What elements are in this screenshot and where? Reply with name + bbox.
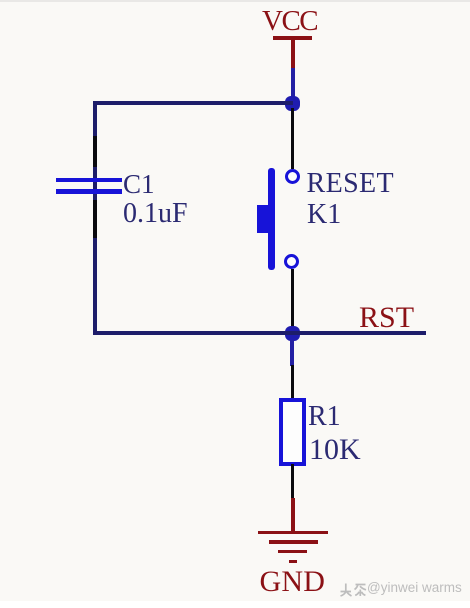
ground bar 2	[269, 540, 318, 543]
wire VCC to node A	[291, 68, 295, 104]
resistor value 10K	[309, 435, 361, 465]
top edge faint line	[0, 0, 470, 2]
ground label GND	[260, 567, 326, 597]
watermark	[339, 580, 462, 598]
button designator K1	[307, 201, 341, 229]
ground bar 3	[278, 550, 307, 553]
capacitor C1 top pin	[93, 136, 97, 167]
button K1 top pin	[291, 108, 295, 169]
node A junction dot	[285, 96, 300, 111]
capacitor C1 top plate	[56, 178, 122, 183]
ground bar 4	[289, 560, 297, 563]
bottom white strip	[0, 601, 470, 608]
capacitor C1 bottom plate	[56, 189, 122, 194]
button K1 plunger	[257, 205, 268, 234]
resistor R1 body	[279, 398, 306, 466]
ground bar 1	[258, 531, 329, 535]
button K1 top terminal circle	[285, 169, 300, 184]
ground lead	[291, 498, 295, 532]
wire left vertical branch	[93, 101, 97, 334]
power symbol VCC bar	[273, 36, 312, 40]
node B junction dot	[285, 326, 300, 341]
wire node B to resistor	[290, 340, 294, 366]
button K1 bottom terminal circle	[284, 254, 299, 269]
power label VCC	[262, 7, 317, 36]
wire node A to left branch (horizontal top)	[93, 101, 293, 105]
capacitor C1 bottom pin	[93, 200, 97, 238]
net label RST	[359, 303, 414, 333]
button K1 actuator bar	[268, 168, 275, 270]
resistor R1 bottom pin	[291, 464, 295, 499]
resistor designator R1	[308, 403, 341, 431]
button K1 bottom pin	[291, 269, 295, 327]
button label RESET	[307, 170, 395, 198]
capacitor label C1	[123, 171, 155, 198]
wire RST horizontal	[93, 331, 426, 335]
resistor R1 top pin	[291, 365, 295, 400]
power symbol VCC lead	[291, 38, 295, 70]
capacitor value 0.1uF	[123, 200, 188, 228]
